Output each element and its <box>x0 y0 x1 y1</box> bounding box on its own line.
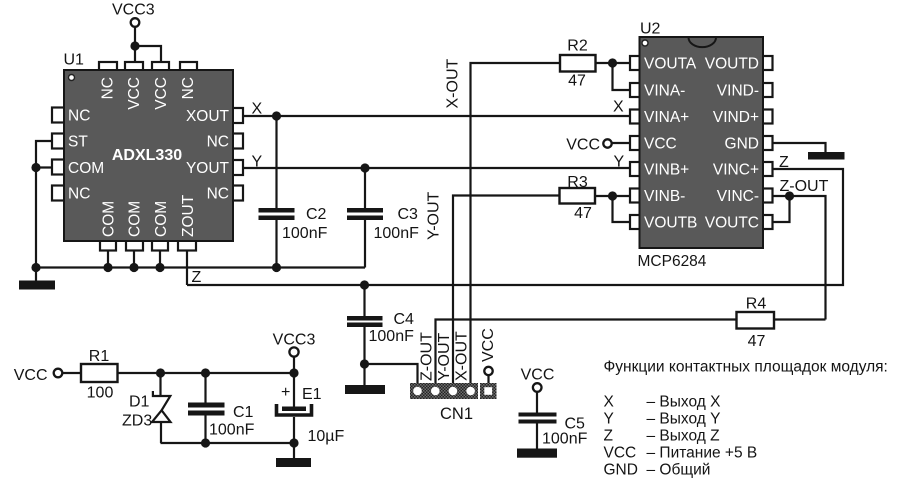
svg-text:R1: R1 <box>89 348 110 365</box>
svg-text:YOUT: YOUT <box>186 160 230 177</box>
svg-text:U1: U1 <box>64 52 85 69</box>
svg-text:47: 47 <box>574 205 592 222</box>
svg-text:100nF: 100nF <box>282 225 328 242</box>
svg-text:Z: Z <box>192 269 202 286</box>
svg-text:COM: COM <box>153 201 170 237</box>
svg-text:100nF: 100nF <box>209 422 255 439</box>
svg-text:– Питание +5 В: – Питание +5 В <box>647 445 758 462</box>
svg-text:NC: NC <box>68 108 90 125</box>
svg-text:100nF: 100nF <box>542 431 588 448</box>
svg-text:Z: Z <box>779 154 789 171</box>
svg-text:Z-OUT: Z-OUT <box>419 332 436 381</box>
svg-text:10µF: 10µF <box>308 428 345 445</box>
svg-text:ZD3: ZD3 <box>122 413 152 430</box>
svg-text:E1: E1 <box>302 386 322 403</box>
svg-text:VINB+: VINB+ <box>644 162 689 179</box>
svg-text:D1: D1 <box>129 394 150 411</box>
svg-text:COM: COM <box>101 201 118 237</box>
svg-text:C3: C3 <box>398 206 419 223</box>
svg-text:X-OUT: X-OUT <box>445 59 462 109</box>
svg-text:+: + <box>281 384 290 401</box>
svg-text:VINB-: VINB- <box>644 188 685 205</box>
svg-text:Y: Y <box>614 154 625 171</box>
svg-text:X: X <box>604 394 615 411</box>
svg-text:VCC: VCC <box>566 137 600 154</box>
svg-text:VOUTB: VOUTB <box>644 215 697 232</box>
svg-text:NC: NC <box>100 77 117 99</box>
svg-text:R4: R4 <box>746 296 767 313</box>
svg-text:VOUTC: VOUTC <box>705 215 759 232</box>
svg-text:COM: COM <box>127 201 144 237</box>
svg-text:47: 47 <box>748 333 766 350</box>
svg-text:Y: Y <box>252 154 263 171</box>
svg-text:ZOUT: ZOUT <box>180 194 197 237</box>
svg-text:VCC3: VCC3 <box>112 2 155 19</box>
svg-text:VCC: VCC <box>480 328 497 362</box>
svg-text:– Общий: – Общий <box>647 462 711 479</box>
svg-text:R2: R2 <box>567 38 588 55</box>
svg-text:U2: U2 <box>640 21 661 38</box>
svg-text:C4: C4 <box>394 311 415 328</box>
svg-text:Y: Y <box>604 411 614 428</box>
svg-text:COM: COM <box>68 160 104 177</box>
svg-text:NC: NC <box>207 134 229 151</box>
svg-text:100: 100 <box>87 385 114 402</box>
svg-text:ST: ST <box>68 134 88 151</box>
svg-text:MCP6284: MCP6284 <box>638 253 707 270</box>
svg-text:NC: NC <box>68 186 90 203</box>
svg-text:Z: Z <box>604 428 613 445</box>
svg-text:C1: C1 <box>233 404 254 421</box>
svg-text:VOUTD: VOUTD <box>705 56 759 73</box>
svg-text:GND: GND <box>725 136 759 153</box>
svg-text:VCC: VCC <box>14 367 48 384</box>
svg-text:– Выход Z: – Выход Z <box>647 428 720 445</box>
svg-text:100nF: 100nF <box>369 328 415 345</box>
svg-text:VOUTA: VOUTA <box>644 56 697 73</box>
svg-text:R3: R3 <box>567 174 588 191</box>
svg-text:NC: NC <box>180 77 197 99</box>
svg-text:VINA+: VINA+ <box>644 109 689 126</box>
svg-text:VCC: VCC <box>521 367 555 384</box>
svg-text:VCC: VCC <box>604 445 637 462</box>
svg-text:VINC-: VINC- <box>717 188 759 205</box>
svg-text:GND: GND <box>604 462 638 479</box>
svg-text:VCC3: VCC3 <box>273 332 316 349</box>
svg-text:– Выход X: – Выход X <box>647 394 722 411</box>
svg-text:Z-OUT: Z-OUT <box>780 178 829 195</box>
svg-text:Y-OUT: Y-OUT <box>426 191 443 240</box>
svg-text:VINC+: VINC+ <box>713 162 759 179</box>
svg-text:– Выход Y: – Выход Y <box>647 411 721 428</box>
svg-text:VCC: VCC <box>153 77 170 110</box>
svg-text:ADXL330: ADXL330 <box>112 147 182 164</box>
svg-text:XOUT: XOUT <box>186 108 230 125</box>
svg-text:C2: C2 <box>306 206 327 223</box>
svg-text:VIND-: VIND- <box>717 83 759 100</box>
svg-text:100nF: 100nF <box>374 225 420 242</box>
svg-text:NC: NC <box>207 186 229 203</box>
svg-text:X: X <box>252 101 263 118</box>
svg-text:CN1: CN1 <box>440 405 473 423</box>
svg-text:VCC: VCC <box>644 136 677 153</box>
svg-text:Функции контактных площадок мо: Функции контактных площадок модуля: <box>604 359 888 376</box>
svg-text:VCC: VCC <box>126 77 143 110</box>
svg-text:X: X <box>613 99 624 116</box>
svg-text:VINA-: VINA- <box>644 83 685 100</box>
svg-text:X-OUT: X-OUT <box>454 331 471 381</box>
svg-text:VIND+: VIND+ <box>713 109 759 126</box>
svg-text:Y-OUT: Y-OUT <box>436 332 453 381</box>
svg-text:47: 47 <box>568 73 586 90</box>
